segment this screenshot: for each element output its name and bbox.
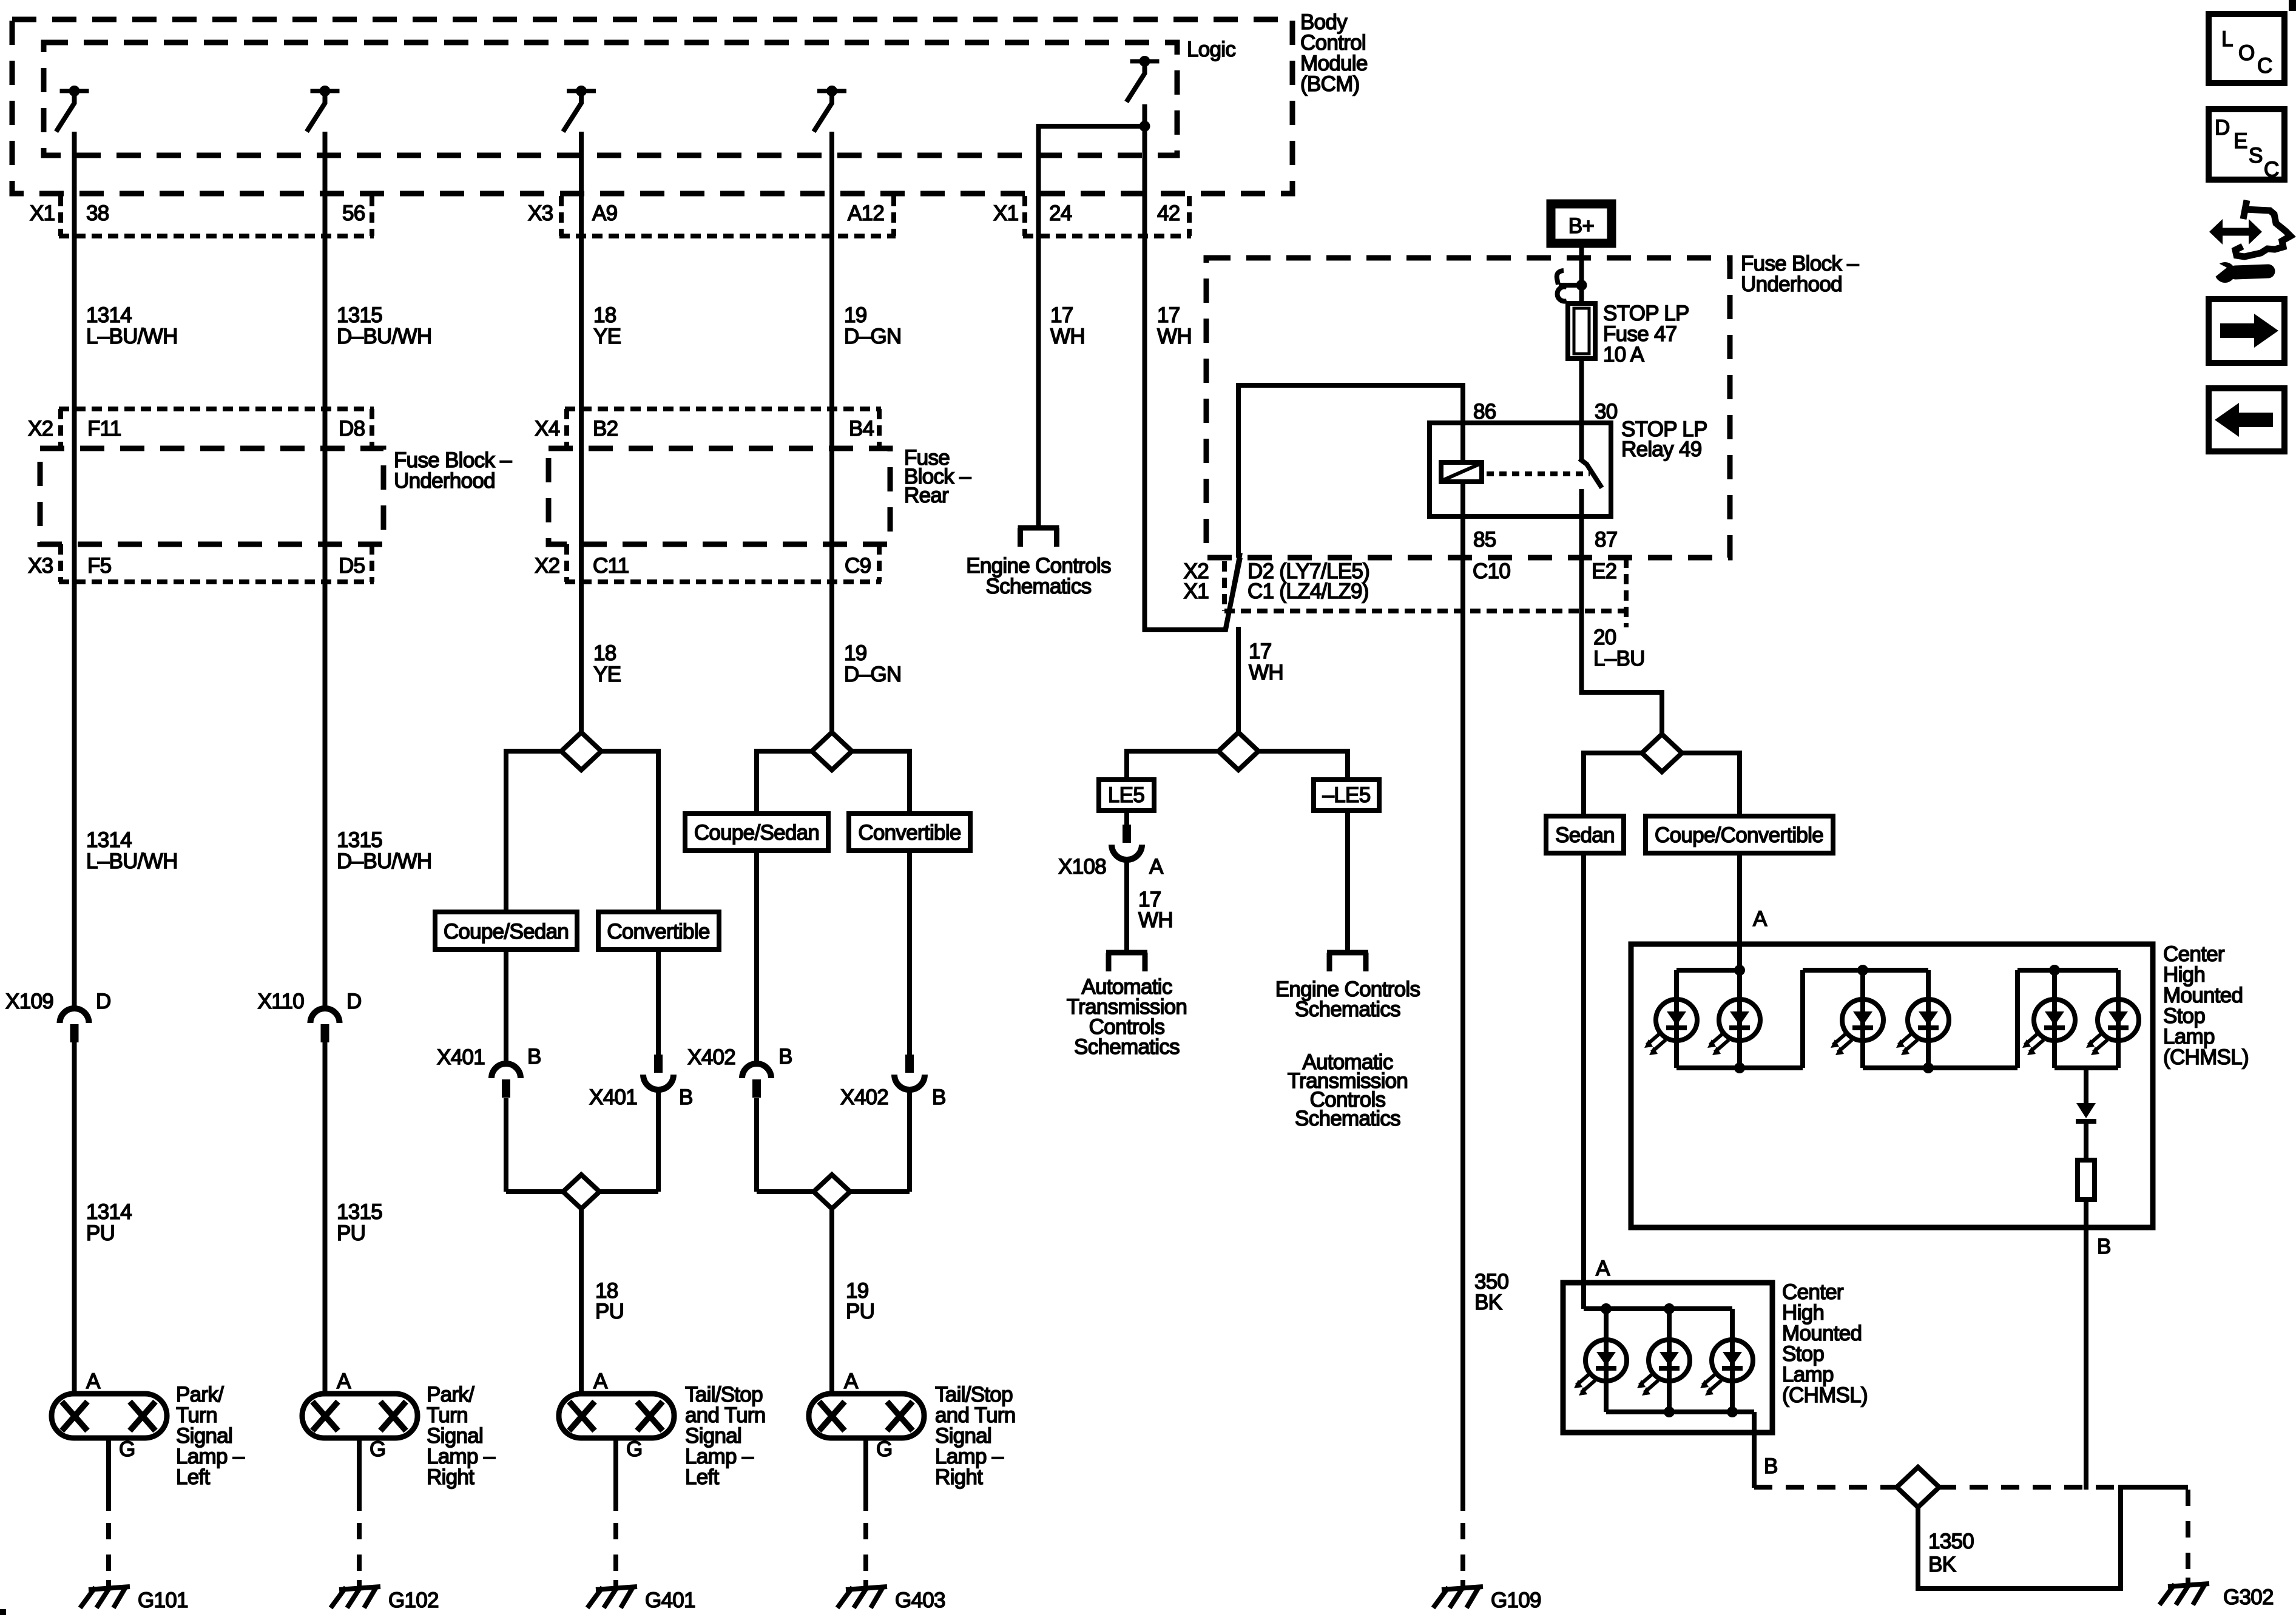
connector row X1 separator left xyxy=(58,196,63,236)
label circuit 18 YE xyxy=(593,303,621,348)
lamp Park/Right (G102) xyxy=(302,1394,417,1438)
wire to Convertible box (19) xyxy=(851,751,910,814)
svg-text:A: A xyxy=(337,1369,351,1393)
series riser pair1-pair2 xyxy=(1800,970,1805,1068)
fuse block rear box xyxy=(549,448,890,544)
lower CHMSL bottom bus xyxy=(1606,1409,1754,1414)
wire 20 L-BU xyxy=(1582,516,1663,734)
svg-text:B4: B4 xyxy=(849,417,874,441)
svg-text:Schematics: Schematics xyxy=(1295,1107,1400,1130)
junction dot lower LED2 top xyxy=(1664,1303,1675,1314)
svg-text:C10: C10 xyxy=(1473,559,1510,583)
LED D6 branch wire xyxy=(2116,970,2121,1068)
pin A label (lower CHMSL) xyxy=(1596,1257,1610,1280)
connector row X2/X1 separator left xyxy=(1222,561,1227,611)
lamp Tail/StopLeft (G401) xyxy=(559,1394,674,1438)
junction dot LED pair3 top xyxy=(2049,965,2060,976)
lamp Tail/StopRight (G403) xyxy=(809,1394,924,1438)
svg-text:G: G xyxy=(370,1437,386,1461)
label G401 xyxy=(645,1588,695,1612)
LED pair3 bottom bus xyxy=(2055,1065,2118,1070)
svg-text:WH: WH xyxy=(1138,908,1173,932)
svg-text:D: D xyxy=(96,990,111,1013)
svg-text:F11: F11 xyxy=(87,417,121,441)
pin B label (X401 right) xyxy=(679,1085,693,1109)
label Fuse Block - Underhood (left) xyxy=(394,448,512,493)
svg-text:Convertible: Convertible xyxy=(607,920,709,944)
svg-text:WH: WH xyxy=(1050,325,1085,348)
label X109 xyxy=(5,990,53,1013)
svg-text:X1: X1 xyxy=(993,201,1018,225)
svg-text:1315: 1315 xyxy=(337,828,382,852)
svg-text:X2: X2 xyxy=(535,554,559,578)
pin 24 label xyxy=(1049,201,1072,225)
pin C11 label xyxy=(593,554,629,578)
wire lamp ground to G102 xyxy=(357,1438,362,1588)
fuse block underhood row X2 separator left xyxy=(58,409,63,448)
LED D8 xyxy=(1637,1340,1690,1396)
fuse block underhood row X3 bottom edge xyxy=(59,579,374,584)
label G101 xyxy=(138,1588,188,1612)
label circuit 1315 PU xyxy=(337,1200,382,1245)
svg-text:Relay 49: Relay 49 xyxy=(1621,437,1702,461)
svg-text:F5: F5 xyxy=(87,554,111,578)
svg-text:Coupe/Convertible: Coupe/Convertible xyxy=(1655,823,1823,847)
label X402 (right) xyxy=(840,1085,888,1109)
ground G403 xyxy=(837,1587,887,1608)
svg-text:86: 86 xyxy=(1473,400,1496,424)
label Fuse Block - Underhood (right) xyxy=(1741,252,1859,296)
BCM driver switch 2 xyxy=(307,86,340,132)
LED D4 xyxy=(1896,999,1949,1055)
port to Engine Controls Schematics (-LE5) xyxy=(1327,953,1368,971)
label Center High Mounted Stop Lamp (CHMSL) lower xyxy=(1782,1280,1868,1407)
label Center High Mounted Stop Lamp (CHMSL) upper xyxy=(2163,942,2249,1069)
label circuit 17 WH (pin 24) xyxy=(1050,303,1085,348)
svg-text:38: 38 xyxy=(86,201,109,225)
label Tail/Stop and Turn Signal Lamp – Left xyxy=(685,1383,766,1489)
svg-text:PU: PU xyxy=(846,1300,874,1323)
svg-text:A: A xyxy=(86,1369,101,1393)
svg-text:L–BU/WH: L–BU/WH xyxy=(86,849,178,873)
connector row X1 bottom edge xyxy=(59,234,374,238)
svg-text:YE: YE xyxy=(593,663,621,686)
pin D5 label xyxy=(339,554,365,578)
wire to blocking diode xyxy=(2084,1068,2088,1104)
LED D2 branch wire xyxy=(1737,970,1742,1068)
svg-text:Schematics: Schematics xyxy=(986,575,1092,598)
connector X3b label xyxy=(28,554,53,578)
svg-text:WH: WH xyxy=(1249,661,1283,684)
svg-text:Right: Right xyxy=(935,1465,983,1489)
wire to -LE5 box xyxy=(1258,751,1348,780)
wire 350 BK dashed segment xyxy=(1460,1523,1465,1588)
svg-text:Convertible: Convertible xyxy=(858,821,961,845)
wire 350 BK xyxy=(1460,516,1465,1511)
icon forward arrow box xyxy=(2209,299,2284,363)
label G302 xyxy=(2223,1585,2274,1609)
svg-text:B+: B+ xyxy=(1568,214,1594,238)
fuse block cavity hook symbol xyxy=(1557,271,1578,302)
pin 56 label xyxy=(342,201,365,225)
svg-text:A: A xyxy=(1596,1257,1610,1280)
label G403 xyxy=(895,1588,945,1612)
svg-text:Coupe/Sedan: Coupe/Sedan xyxy=(694,821,819,845)
svg-text:B2: B2 xyxy=(593,417,618,441)
fuse block underhood row X2 top edge xyxy=(59,407,374,411)
LED D9 branch wire xyxy=(1730,1309,1735,1412)
wire 1314 upper xyxy=(72,132,77,1394)
LED D1 branch wire xyxy=(1674,970,1679,1068)
connector X2r label xyxy=(535,554,559,578)
LED D9 xyxy=(1700,1340,1753,1396)
fuse block rear row X4 separator right xyxy=(877,409,882,448)
dashed bus lower-B to diamond xyxy=(1754,1485,1898,1490)
svg-text:G101: G101 xyxy=(138,1588,188,1612)
svg-text:1315: 1315 xyxy=(337,1200,382,1224)
pin B2 label xyxy=(593,417,618,441)
pin D label (X110) xyxy=(346,990,362,1013)
port to Engine Controls Schematics xyxy=(1018,528,1059,547)
pin G label (G102 lamp) xyxy=(370,1437,386,1461)
pin B4 label xyxy=(849,417,874,441)
junction dot LED pair2 top xyxy=(1857,965,1868,976)
dashed bus diamond to corner xyxy=(1938,1485,2119,1490)
label Automatic Transmission Controls Schematics (-LE5) xyxy=(1288,1050,1408,1130)
icon DESC box xyxy=(2209,109,2284,181)
svg-text:A12: A12 xyxy=(848,201,884,225)
junction dot B+ node xyxy=(1576,280,1587,291)
pin 87 label xyxy=(1595,528,1618,552)
label circuit 1314 PU xyxy=(86,1200,132,1245)
svg-text:X402: X402 xyxy=(687,1045,735,1069)
svg-text:Left: Left xyxy=(176,1465,211,1489)
inline connector X110 pin D xyxy=(311,1008,340,1042)
fuse block rear row X2 separator left xyxy=(564,544,569,582)
svg-text:C1 (LZ4/LZ9): C1 (LZ4/LZ9) xyxy=(1248,579,1369,603)
label circuit 17 WH (X108) xyxy=(1138,888,1173,932)
label Park/ Turn Signal Lamp – Left xyxy=(176,1383,245,1489)
svg-text:D–BU/WH: D–BU/WH xyxy=(337,325,432,348)
wire pin42 jog to fuse block xyxy=(1145,553,1241,630)
wire 17 WH pin42 xyxy=(1143,104,1147,632)
connector row X1 separator right xyxy=(370,196,374,236)
label circuit 20 L-BU xyxy=(1593,626,1645,670)
label Engine Controls Schematics (-LE5) xyxy=(1275,977,1420,1021)
relay switch xyxy=(1579,423,1602,516)
pin 86 label xyxy=(1473,400,1496,424)
svg-text:B: B xyxy=(1764,1454,1778,1478)
node: switch5 to pin-24 branch junction xyxy=(1039,121,1150,132)
wire to LE5 box xyxy=(1127,751,1218,780)
svg-text:D–GN: D–GN xyxy=(844,663,901,686)
upper CHMSL housing box xyxy=(1631,944,2153,1227)
page corner mark bottom left xyxy=(0,1609,6,1615)
label circuit 18 PU xyxy=(595,1279,624,1323)
inline connector X401 pin B (right) xyxy=(643,1055,674,1090)
pin F11 label xyxy=(87,417,121,441)
BCM driver switch 3 xyxy=(563,86,596,132)
lower CHMSL top bus xyxy=(1584,1306,1732,1311)
pin E2 label xyxy=(1592,559,1616,583)
svg-text:1350: 1350 xyxy=(1928,1530,1974,1553)
wire Convertible to X402 (right) xyxy=(907,851,912,1055)
svg-text:A: A xyxy=(1149,855,1164,879)
pin C10 label xyxy=(1473,559,1510,583)
label circuit 19 D-GN xyxy=(844,303,901,348)
pin A label (G401 lamp) xyxy=(593,1369,608,1393)
LED D8 branch wire xyxy=(1667,1309,1672,1412)
svg-text:B: B xyxy=(2097,1235,2111,1258)
pin F5 label xyxy=(87,554,111,578)
svg-text:G: G xyxy=(626,1437,643,1461)
svg-text:E2: E2 xyxy=(1592,559,1616,583)
svg-text:20: 20 xyxy=(1593,626,1616,649)
wire X401 to merge (left) xyxy=(504,1098,508,1192)
svg-text:G403: G403 xyxy=(895,1588,945,1612)
svg-text:YE: YE xyxy=(593,325,621,348)
connector X4 label xyxy=(535,417,560,441)
label Tail/Stop and Turn Signal Lamp – Right xyxy=(935,1383,1016,1489)
junction diamond 18 YE xyxy=(561,732,601,770)
inline connector X401 pin B (left) xyxy=(491,1064,521,1098)
lower CHMSL housing box xyxy=(1563,1283,1772,1433)
label circuit 17 WH (junction) xyxy=(1249,640,1283,684)
svg-text:D: D xyxy=(346,990,362,1013)
Logic box xyxy=(44,42,1177,155)
LED D2 xyxy=(1707,999,1760,1055)
wire fuse to relay pin 30 xyxy=(1579,359,1584,421)
merge diamond 19 PU xyxy=(757,1175,910,1209)
label Body Control Module (BCM) xyxy=(1300,10,1368,96)
pin D8 label xyxy=(339,417,365,441)
wire Coupe/Sedan to X402 xyxy=(754,851,759,1064)
option box Convertible (19) xyxy=(849,814,970,851)
resistor xyxy=(2078,1160,2095,1200)
label X110 xyxy=(258,990,305,1013)
LED D1 xyxy=(1644,999,1697,1055)
LED D5 branch wire xyxy=(2052,970,2057,1068)
connector X2/X1 labels xyxy=(1184,559,1209,603)
svg-text:Rear: Rear xyxy=(904,484,949,507)
svg-text:Underhood: Underhood xyxy=(1741,272,1842,296)
label circuit 18 YE lower xyxy=(593,641,621,686)
pin A label (G403 lamp) xyxy=(844,1369,859,1393)
connector row X3 separator right xyxy=(891,196,896,236)
svg-text:B: B xyxy=(527,1045,541,1068)
pin 42 label xyxy=(1157,201,1180,225)
label X402 (left) xyxy=(687,1045,735,1069)
LED pair1 top bus xyxy=(1676,968,1740,973)
label circuit 1314 L-BU/WH lower xyxy=(86,828,178,873)
svg-text:Right: Right xyxy=(427,1465,474,1489)
svg-text:X402: X402 xyxy=(840,1085,888,1109)
connector row X1b separator right xyxy=(1187,196,1192,236)
svg-text:24: 24 xyxy=(1049,201,1072,225)
fuse block rear row X2 bottom edge xyxy=(565,579,881,584)
svg-text:L–BU/WH: L–BU/WH xyxy=(86,325,178,348)
label circuit 19 D-GN lower xyxy=(844,641,901,686)
svg-text:PU: PU xyxy=(337,1221,365,1245)
ground G109 xyxy=(1433,1587,1483,1608)
pin G label (G401 lamp) xyxy=(626,1437,643,1461)
label Park/ Turn Signal Lamp – Right xyxy=(427,1383,496,1489)
fuse block underhood left box xyxy=(40,448,383,544)
svg-text:1314: 1314 xyxy=(86,1200,132,1224)
svg-text:X109: X109 xyxy=(5,990,53,1013)
junction dot LED pair2 bottom xyxy=(1923,1062,1934,1073)
connector row X1b separator left xyxy=(1022,196,1027,236)
BCM driver switch 1 xyxy=(56,86,89,132)
wire lamp ground to G401 xyxy=(613,1438,618,1588)
BCM driver switch 4 xyxy=(814,86,846,132)
svg-text:D5: D5 xyxy=(339,554,365,578)
ground G101 xyxy=(80,1587,130,1608)
icon flip-arrow with wrench xyxy=(2209,200,2291,283)
svg-text:17: 17 xyxy=(1050,303,1073,327)
svg-text:X1: X1 xyxy=(1184,579,1209,603)
pin A label (X108) xyxy=(1149,855,1164,879)
svg-text:PU: PU xyxy=(595,1300,624,1323)
label X108 xyxy=(1058,855,1106,879)
svg-text:C9: C9 xyxy=(845,554,871,578)
wire 18 YE upper xyxy=(579,132,584,733)
wire to Coupe/Convertible box xyxy=(1682,753,1740,816)
svg-text:C11: C11 xyxy=(593,554,629,578)
label Automatic Transmission Controls Schematics (LE5) xyxy=(1067,975,1187,1059)
svg-text:WH: WH xyxy=(1157,325,1192,348)
svg-text:BK: BK xyxy=(1928,1553,1956,1576)
junction dot LED pair1 top xyxy=(1734,965,1745,976)
svg-text:85: 85 xyxy=(1473,528,1496,552)
pin 85 label xyxy=(1473,528,1496,552)
label circuit 1314 L-BU/WH xyxy=(86,303,178,348)
wire X402 to merge (left) xyxy=(754,1098,759,1192)
svg-text:LE5: LE5 xyxy=(1108,783,1144,807)
label circuit 1315 D-BU/WH xyxy=(337,303,432,348)
pin B label (X401 left) xyxy=(527,1045,541,1068)
wire Coupe/Convertible to upper CHMSL xyxy=(1737,853,1742,970)
svg-text:L: L xyxy=(2221,27,2233,51)
page corner mark top right xyxy=(2289,0,2296,11)
svg-text:C: C xyxy=(2264,158,2279,181)
label Fuse Block - Rear xyxy=(904,446,971,507)
wire to Convertible box (18) xyxy=(600,751,658,912)
svg-text:(CHMSL): (CHMSL) xyxy=(1782,1383,1868,1407)
junction dot lower LED3 bottom xyxy=(1727,1406,1738,1417)
LED pair2 bottom bus xyxy=(1863,1065,2017,1070)
option box Convertible (18) xyxy=(598,912,719,950)
pin B label (X402 left) xyxy=(778,1045,792,1068)
LED D3 xyxy=(1831,999,1883,1055)
wire lamp ground to G403 xyxy=(863,1438,868,1588)
svg-text:O: O xyxy=(2238,41,2255,65)
label circuit 1315 D-BU/WH lower xyxy=(337,828,432,873)
LED pair3 top bus xyxy=(2017,968,2118,973)
svg-text:E: E xyxy=(2234,129,2247,153)
wire B+ to fuse xyxy=(1579,248,1584,303)
series riser pair2-pair3 xyxy=(2015,970,2020,1068)
svg-text:G: G xyxy=(119,1437,135,1461)
junction dot LED pair1 bottom xyxy=(1734,1062,1745,1073)
LED D7 branch wire xyxy=(1604,1309,1609,1412)
pin A9 label xyxy=(592,201,617,225)
wire diode to resistor xyxy=(2084,1121,2088,1160)
label Engine Controls Schematics (pin 24) xyxy=(966,554,1111,598)
connector row X2/X1 bottom edge xyxy=(1224,609,1628,613)
option box Sedan xyxy=(1546,816,1624,853)
fuse block rear row X4 separator left xyxy=(564,409,569,448)
svg-text:X4: X4 xyxy=(535,417,560,441)
wire lamp ground to G101 xyxy=(106,1438,111,1588)
svg-text:17: 17 xyxy=(1249,640,1272,663)
fuse block underhood row X3 separator right xyxy=(370,544,374,582)
svg-text:19: 19 xyxy=(844,303,867,327)
wire to Coupe/Sedan box (18) xyxy=(506,751,562,912)
junction dot lower LED1 top xyxy=(1601,1303,1612,1314)
svg-text:56: 56 xyxy=(342,201,365,225)
pin A label (G101 lamp) xyxy=(86,1369,101,1393)
inline connector X402 pin B (left) xyxy=(742,1064,771,1098)
svg-text:1314: 1314 xyxy=(86,303,132,327)
pin G label (G403 lamp) xyxy=(876,1437,893,1461)
label G109 xyxy=(1491,1588,1541,1612)
wire connector jog D2/C1 xyxy=(1226,558,1240,628)
svg-text:X108: X108 xyxy=(1058,855,1106,879)
svg-text:–LE5: –LE5 xyxy=(1323,783,1371,807)
wire lower CHMSL pin B xyxy=(1752,1412,1757,1488)
Body Control Module (BCM) box xyxy=(12,19,1292,194)
svg-text:D: D xyxy=(2215,116,2230,140)
option box Coupe/Convertible xyxy=(1646,816,1833,853)
svg-text:1315: 1315 xyxy=(337,303,382,327)
svg-text:18: 18 xyxy=(593,641,616,665)
label X401 (left) xyxy=(437,1045,485,1069)
wire 17 WH pin24 xyxy=(1036,124,1041,528)
lamp Park/Left (G101) xyxy=(52,1394,167,1438)
LED D6 xyxy=(2086,999,2139,1055)
merge diamond 18 PU xyxy=(506,1175,658,1209)
fuse block underhood row X3 separator left xyxy=(58,544,63,582)
pin D label (X109) xyxy=(96,990,111,1013)
wire Convertible to X401 (right) xyxy=(656,950,661,1055)
svg-text:G109: G109 xyxy=(1491,1588,1541,1612)
svg-text:X3: X3 xyxy=(528,201,553,225)
junction diamond 20 L-BU xyxy=(1642,734,1682,772)
pin C9 label xyxy=(845,554,871,578)
pin A12 label xyxy=(848,201,884,225)
svg-text:B: B xyxy=(778,1045,792,1068)
svg-text:X1: X1 xyxy=(30,201,55,225)
connector row X3 bottom edge xyxy=(559,234,896,238)
label G102 xyxy=(388,1588,439,1612)
ground G401 xyxy=(587,1587,637,1608)
svg-text:Schematics: Schematics xyxy=(1074,1035,1180,1059)
pin 38 label xyxy=(86,201,109,225)
svg-text:87: 87 xyxy=(1595,528,1618,552)
svg-text:X401: X401 xyxy=(437,1045,485,1069)
wire Coupe/Sedan to X401 xyxy=(504,950,508,1064)
wire 17 WH to junction diamond xyxy=(1236,627,1241,733)
connector X2 label xyxy=(28,417,53,441)
svg-text:Schematics: Schematics xyxy=(1295,998,1400,1021)
fuse block underhood row X2 separator right xyxy=(370,409,374,448)
wire fuse block to relay pin 86 xyxy=(1238,385,1463,558)
port to Automatic Transmission Controls Schematics xyxy=(1106,953,1147,971)
wire 1350 BK routing xyxy=(1918,1487,2188,1588)
pin A label (G102 lamp) xyxy=(337,1369,351,1393)
label STOP LP Fuse 47 10 A xyxy=(1603,302,1689,366)
